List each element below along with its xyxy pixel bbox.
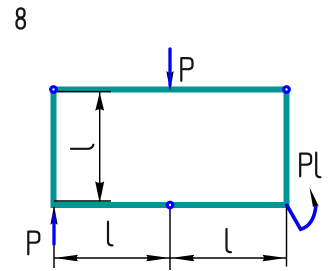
arrowhead center pointing right (bottom dimension) [146, 255, 170, 262]
hinge node top-left [51, 87, 57, 93]
arrowhead left end (bottom dimension) [55, 255, 79, 262]
force P bottom-left: blue shaft [52, 216, 55, 245]
figure number 8 [17, 8, 25, 28]
label l (bottom right dimension) [227, 229, 231, 252]
moment Pl: arrowhead [310, 187, 319, 207]
arrowhead up (vertical dimension) [95, 92, 104, 111]
hinge node bottom-middle [167, 202, 173, 208]
frame member: rectangular frame (teal) [54, 90, 287, 206]
hinge node top-right [284, 87, 290, 93]
extension line bottom (vertical dimension) [54, 200, 111, 202]
label P (top force) [181, 58, 192, 81]
dimension line (bottom) [54, 257, 287, 259]
force P top: blue shaft [168, 49, 171, 85]
moment Pl: curved blue arrow [287, 205, 316, 229]
extension line center (bottom dimension) [169, 205, 171, 270]
extension line left (bottom dimension) [53, 207, 55, 268]
dimension line l (vertical) [99, 92, 101, 200]
arrowhead center pointing left (bottom dimension) [171, 255, 195, 262]
label l (bottom left dimension) [108, 222, 112, 246]
label P (bottom-left force) [28, 232, 39, 255]
extension line top (vertical dimension) [54, 91, 111, 93]
extension line right (bottom dimension) [286, 206, 288, 267]
force P bottom-left: arrowhead [50, 205, 57, 225]
arrowhead down (vertical dimension) [95, 181, 104, 202]
arrowhead right end (bottom dimension) [262, 255, 286, 262]
force P top: arrowhead [166, 71, 173, 91]
label l (vertical dimension, rotated) [71, 145, 93, 149]
label Pl (moment) [300, 154, 311, 177]
